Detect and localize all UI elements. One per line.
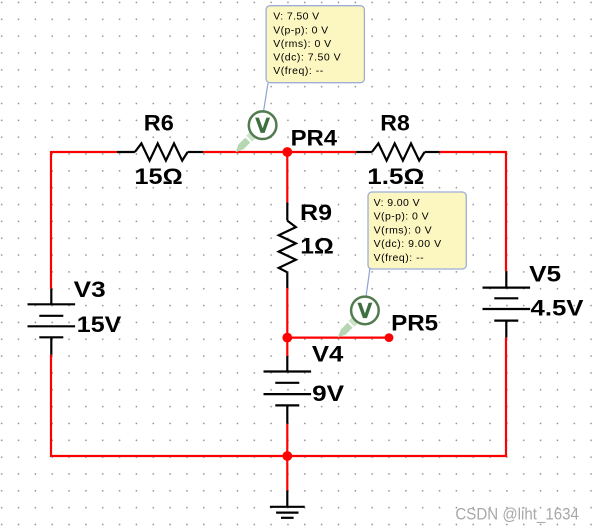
svg-text:V4: V4	[312, 342, 344, 367]
resistor R9	[279, 202, 296, 288]
svg-text:9V: 9V	[312, 381, 344, 406]
wire right vertical below V5	[505, 338, 507, 457]
wire top right of R8	[440, 151, 507, 153]
svg-text:CSDN @liht_1634: CSDN @liht_1634	[455, 505, 579, 523]
svg-text:V3: V3	[74, 277, 106, 302]
svg-text:PR5: PR5	[391, 311, 438, 336]
svg-text:V(p-p): 0 V: V(p-p): 0 V	[374, 211, 429, 223]
resistor R6	[117, 143, 203, 160]
svg-text:R6: R6	[144, 110, 174, 135]
svg-text:V5: V5	[529, 262, 561, 287]
battery V3	[28, 289, 76, 355]
wire middle below R9 to node	[286, 288, 288, 356]
wire stub to PR5	[287, 337, 389, 339]
wire top left of R6	[51, 151, 117, 153]
tooltip leader line PR4	[264, 83, 268, 111]
tooltip box PR5	[368, 192, 466, 269]
svg-text:1Ω: 1Ω	[300, 234, 334, 259]
wire left vertical above V3	[50, 151, 52, 289]
svg-text:V(rms): 0 V: V(rms): 0 V	[273, 38, 331, 50]
battery V5	[483, 271, 531, 337]
svg-text:V(p-p): 0 V: V(p-p): 0 V	[273, 24, 328, 36]
wire top between R6 and R8	[203, 151, 356, 153]
svg-text:V(freq): --: V(freq): --	[273, 65, 324, 77]
svg-text:V: 9.00 V: V: 9.00 V	[374, 197, 420, 209]
svg-text:V(rms): 0 V: V(rms): 0 V	[374, 225, 432, 237]
wire ground drop	[286, 456, 288, 491]
svg-text:V(freq): --: V(freq): --	[374, 252, 425, 264]
ground	[270, 491, 305, 518]
tooltip box PR4	[266, 6, 364, 83]
svg-text:V: 7.50 V: V: 7.50 V	[273, 11, 319, 23]
svg-text:R9: R9	[300, 200, 332, 225]
svg-text:V(dc): 7.50 V: V(dc): 7.50 V	[273, 51, 341, 63]
wire right vertical above V5	[505, 151, 507, 271]
svg-text:15Ω: 15Ω	[135, 164, 183, 189]
tooltip leader line PR5	[366, 268, 370, 295]
node PR5 stub end	[385, 333, 394, 342]
junction node at PR4	[282, 147, 292, 157]
probe PR4	[236, 111, 277, 152]
svg-text:1.5Ω: 1.5Ω	[367, 164, 424, 189]
junction node bottom	[282, 451, 292, 461]
svg-text:R8: R8	[380, 110, 410, 135]
wire middle above R9	[286, 152, 288, 202]
wire middle below V4	[286, 424, 288, 456]
svg-text:15V: 15V	[77, 312, 122, 337]
probe PR5	[338, 297, 379, 338]
wire bottom	[50, 455, 507, 457]
svg-text:V(dc): 9.00 V: V(dc): 9.00 V	[374, 238, 442, 250]
svg-text:4.5V: 4.5V	[531, 296, 584, 321]
wire left vertical below V3	[50, 355, 52, 457]
battery V4	[264, 356, 312, 424]
resistor R8	[356, 143, 439, 160]
junction node R9/V4/PR5 stub	[282, 333, 292, 343]
svg-text:PR4: PR4	[291, 125, 338, 150]
